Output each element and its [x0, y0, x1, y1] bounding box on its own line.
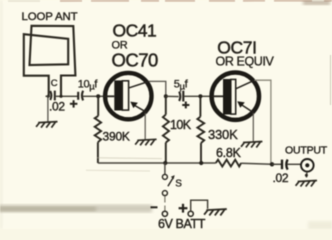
label plus (battery) — [179, 204, 188, 213]
wire: Q2 emitter to ground — [252, 113, 254, 142]
svg-text:S: S — [175, 178, 182, 189]
node: output junction dot — [270, 162, 274, 166]
svg-text:.02: .02 — [273, 171, 289, 185]
svg-text:10K: 10K — [170, 118, 192, 132]
svg-text:C: C — [51, 78, 58, 89]
wire: C to 10uf — [46, 95, 51, 97]
svg-text:5µf: 5µf — [174, 78, 189, 92]
ground at battery plus — [204, 209, 227, 215]
transistor Q2 OC71 — [212, 73, 259, 120]
node: Q1 collector junction dot — [164, 94, 168, 98]
node: loop/ground junction blob — [47, 95, 50, 98]
svg-text:LOOP ANT: LOOP ANT — [22, 11, 78, 23]
battery terminal minus — [162, 211, 167, 216]
wire: Q1 emitter to ground — [144, 113, 146, 140]
resistor 10K — [163, 96, 169, 163]
capacitor 5uf (coupling) — [179, 91, 183, 102]
scan artifact: right edge tick — [330, 55, 332, 105]
ground under output jack — [296, 181, 317, 187]
ground under loop — [36, 122, 57, 128]
svg-text:OUTPUT: OUTPUT — [285, 145, 328, 157]
label + (5uf polarity) — [182, 102, 189, 109]
capacitor .02 output — [282, 160, 288, 170]
svg-text:OC41: OC41 — [113, 21, 157, 41]
output jack J1 — [301, 159, 314, 178]
svg-text:.02: .02 — [49, 100, 65, 114]
svg-text:330K: 330K — [208, 127, 238, 142]
wire: Q2 collector down to output node — [255, 80, 271, 164]
label + (10uf polarity) — [70, 100, 78, 107]
wire: switch to battery minus terminal — [164, 196, 166, 211]
wire: left ground drop from loop/C node — [47, 96, 49, 121]
collector lead Q1 — [129, 81, 149, 87]
ground under Q1 emitter — [135, 139, 156, 145]
switch S lead from bus — [164, 163, 166, 174]
node: Q2 base junction dot — [198, 94, 202, 98]
node: base bias junction dot — [96, 94, 100, 98]
transistor Q1 OC41/OC70 — [104, 73, 152, 119]
wire: 5uf to Q2 base — [166, 95, 179, 97]
scan artifact: left edge shade — [0, 0, 3, 229]
capacitor 10uf (electrolytic) — [78, 91, 83, 101]
svg-text:OR EQUIV: OR EQUIV — [216, 55, 275, 69]
wire: 6.8K to output node — [241, 163, 272, 164]
wire: cap to jack — [287, 163, 301, 165]
resistor 330K — [197, 96, 204, 163]
svg-text:6.8K: 6.8K — [216, 146, 241, 160]
collector lead Q2 — [236, 80, 255, 89]
svg-text:390K: 390K — [103, 130, 130, 144]
node: loop inner lead junction dot — [59, 95, 62, 98]
ground under Q2 emitter — [241, 142, 262, 148]
svg-text:OC70: OC70 — [112, 50, 159, 71]
scan artifact: top edge line — [60, 0, 332, 2]
emitter lead Q1 with PNP arrow — [133, 105, 148, 113]
scan artifact: ghost lines near bus — [97, 157, 162, 160]
battery terminal plus — [188, 211, 193, 216]
svg-text:6V BATT: 6V BATT — [158, 217, 206, 229]
capacitor C .02 (tuning cap across loop) — [50, 91, 55, 101]
resistor 390K — [95, 96, 101, 163]
node: bus junction at 330K — [199, 161, 203, 165]
loop antenna L1 (2-turn square spiral) — [24, 26, 76, 96]
emitter lead Q2 with PNP arrow — [240, 104, 254, 113]
svg-text:10µf: 10µf — [78, 78, 99, 92]
resistor 6.8K (in bus) — [216, 160, 241, 167]
switch S — [162, 174, 174, 195]
label minus — [151, 206, 158, 208]
wire: negative supply bus — [98, 162, 216, 164]
wire: 10uf to Q1 base, junction at 390K — [82, 95, 103, 97]
wire: Q1 collector to 10K node — [149, 81, 166, 96]
wire: plus terminal to ground — [191, 200, 208, 211]
wire: junction to .02 out cap — [272, 163, 281, 165]
node: bus junction at 10K/switch — [163, 161, 167, 165]
